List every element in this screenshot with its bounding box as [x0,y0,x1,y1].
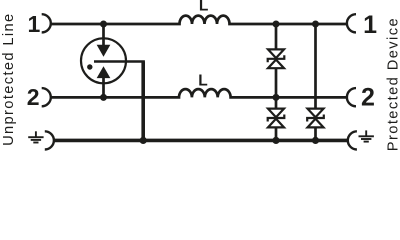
svg-text:1: 1 [28,11,41,37]
svg-text:Unprotected Line: Unprotected Line [1,12,17,145]
svg-text:L: L [198,72,207,89]
svg-text:1: 1 [363,11,377,39]
svg-text:2: 2 [27,84,40,110]
svg-text:2: 2 [361,84,375,112]
svg-text:L: L [199,0,208,14]
svg-text:Protected Device: Protected Device [385,17,400,151]
